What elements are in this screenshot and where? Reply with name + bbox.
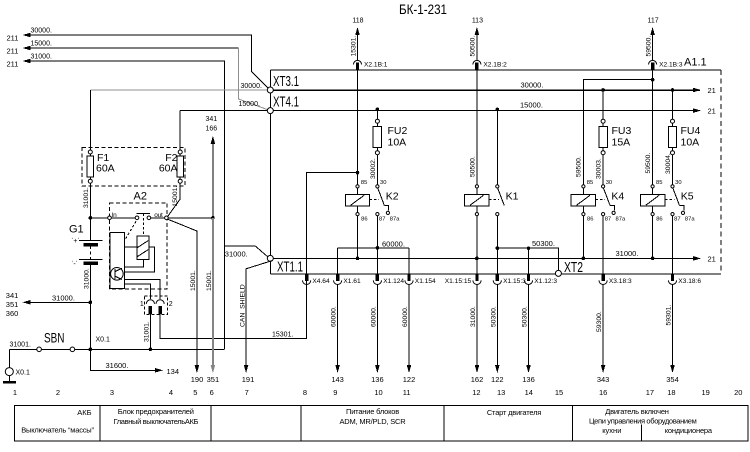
block A2 dashed outline: [110, 203, 168, 289]
wire driver to coil: [124, 246, 137, 248]
wire contact to out: [151, 217, 165, 219]
wire 59300 K4 87 to X3.18:3: [602, 216, 604, 275]
svg-text:Старт двигателя: Старт двигателя: [487, 408, 541, 417]
svg-text:30000.: 30000.: [31, 28, 52, 35]
arrow 21 (31000 bus): [693, 256, 701, 261]
relay K2 coil pin bottom circle: [356, 213, 359, 216]
svg-text:17: 17: [646, 388, 654, 397]
svg-text:кондиционера: кондиционера: [665, 426, 713, 435]
fuse FU2: [375, 119, 379, 123]
svg-text:211: 211: [7, 34, 19, 43]
svg-text:60000.: 60000.: [370, 306, 377, 327]
svg-text:G1: G1: [69, 224, 84, 236]
svg-text:out: out: [154, 212, 163, 219]
svg-text:3: 3: [110, 388, 114, 397]
svg-text:211: 211: [7, 60, 19, 69]
wire 60000 K2 87 down: [376, 216, 378, 248]
A2 internal wire coil-right loop: [124, 247, 154, 272]
wire net 15000 segment to F2: [180, 110, 270, 112]
svg-text:X1.15:15: X1.15:15: [445, 278, 472, 285]
svg-text:50300.: 50300.: [532, 239, 555, 248]
relay K1 contact pin bottom circle: [496, 213, 499, 216]
svg-text:X2.1B:3: X2.1B:3: [659, 62, 683, 69]
svg-text:60000.: 60000.: [382, 239, 405, 248]
svg-text:341: 341: [6, 291, 19, 300]
svg-text:БК-1-231: БК-1-231: [399, 1, 447, 17]
wire 31600 to pin 134: [90, 349, 156, 370]
junction 50300 branch X1.12:3: [527, 246, 531, 250]
svg-text:15000.: 15000.: [31, 41, 52, 48]
wire 15000 to K1 contact: [496, 109, 498, 184]
connector pin X1.124: [376, 274, 379, 281]
A2 driver box: [110, 232, 124, 288]
svg-text:59300.: 59300.: [596, 311, 603, 332]
block A1.1 top border line: [270, 69, 721, 71]
battery G1 cell1 thick plate: [84, 243, 98, 246]
svg-text:5: 5: [193, 388, 197, 397]
svg-text:Главный выключательАКБ: Главный выключательАКБ: [113, 417, 198, 426]
svg-text:60A: 60A: [159, 163, 178, 175]
svg-text:87a: 87a: [616, 217, 626, 223]
svg-text:87a: 87a: [685, 217, 695, 223]
svg-text:X4.64: X4.64: [312, 278, 330, 285]
wire battery top: [89, 218, 91, 240]
wire 31000 to sheet refs 341/351/360: [28, 301, 90, 303]
svg-text:87: 87: [674, 217, 680, 223]
svg-text:K4: K4: [611, 191, 624, 203]
wire 30000 to FU3: [602, 90, 604, 119]
junction out node: [211, 216, 215, 220]
relay K1 contact lever: [498, 188, 505, 205]
relay K4 contact pin top circle: [602, 185, 605, 188]
junction 15000/FU2: [376, 108, 380, 112]
wire 31000 down to pin 162: [476, 284, 478, 366]
relay K4 coil pin top circle: [582, 185, 585, 188]
svg-text:6: 6: [210, 388, 214, 397]
connector pin X3.18:3: [601, 274, 604, 281]
wire net 15000 to sheet 211 (grey drop): [28, 47, 239, 49]
junction 15301 branch: [356, 171, 360, 175]
ground symbol: [8, 376, 10, 382]
wire K1 coil 86 to 31000 bus: [476, 216, 478, 259]
wire 31000 branch to XT1.1 node: [224, 246, 268, 257]
relay K4 pin 87a circle: [612, 211, 615, 214]
svg-text:21: 21: [708, 254, 716, 263]
svg-text:FU2: FU2: [388, 125, 408, 137]
connector pin X1.12:3: [527, 274, 530, 281]
svg-text:30: 30: [606, 180, 612, 186]
relay K2 contact pin bottom circle: [376, 213, 379, 216]
wire junction to K2 coil: [357, 173, 359, 185]
svg-text:136: 136: [522, 375, 535, 384]
svg-text:60000.: 60000.: [331, 306, 338, 327]
svg-text:X2.1B:1: X2.1B:1: [364, 62, 388, 69]
wire K5 coil 86 to 31000 bus: [652, 216, 654, 259]
relay K4 coil pin bottom circle: [582, 213, 585, 216]
node XT4.1 terminal circle: [267, 108, 273, 114]
wire 50300 K1 87 down: [496, 216, 498, 249]
wire 15301 branch to X4.64 riser: [307, 173, 358, 275]
svg-text:X3.18:3: X3.18:3: [609, 278, 632, 285]
wire 50500 X2.1B:2 down to K1 coil: [476, 70, 478, 185]
A2 coil box: [137, 236, 149, 259]
svg-text:X1.154: X1.154: [415, 278, 436, 285]
wire 59500 up from connector X2.1B:3: [652, 29, 654, 61]
svg-text:Блок предохранителей: Блок предохранителей: [118, 407, 194, 416]
svg-text:АКБ: АКБ: [77, 408, 91, 417]
svg-text:351: 351: [207, 375, 220, 384]
svg-text:FU3: FU3: [612, 125, 632, 137]
svg-text:162: 162: [471, 375, 484, 384]
relay K2 contact pin top circle: [376, 185, 379, 188]
relay K4 coil: [582, 188, 584, 195]
svg-text:Цепи управления оборудованием: Цепи управления оборудованием: [589, 416, 697, 425]
wire 15000 to FU2: [376, 109, 378, 119]
relay K1 dashed link: [489, 199, 499, 201]
relay K2 coil pin top circle: [356, 185, 359, 188]
svg-text:Выключатель “массы”: Выключатель “массы”: [21, 425, 94, 434]
svg-text:191: 191: [242, 375, 255, 384]
wire net 30000 to sheet 211 (top-left): [28, 35, 268, 88]
svg-text:ADM, MR/PLD, SCR: ADM, MR/PLD, SCR: [340, 417, 407, 426]
arrow up to pin 117: [650, 27, 655, 35]
wire 31001 F1 to battery junction: [89, 183, 91, 218]
battery inter-cell dashed link: [89, 246, 91, 259]
node XT3.1 terminal circle: [267, 87, 273, 93]
svg-text:кухни: кухни: [602, 426, 621, 435]
connector pin X1.61: [336, 274, 339, 281]
wire K2 coil 86 to 31000 bus: [357, 216, 359, 259]
junction 30000/FU4: [671, 88, 675, 92]
wire 15001 out diagonal to pin 190: [168, 219, 197, 366]
svg-text:31000.: 31000.: [225, 249, 248, 258]
junction 50300 (K1): [496, 246, 500, 250]
fuse FU4: [671, 119, 675, 123]
svg-text:In: In: [112, 212, 118, 219]
svg-text:134: 134: [167, 367, 180, 376]
svg-text:20: 20: [734, 388, 742, 397]
wire 15301 X2.1B:1 down to junction: [357, 70, 359, 173]
svg-text:A1.1: A1.1: [684, 57, 707, 69]
svg-text:59301.: 59301.: [666, 305, 673, 326]
svg-text:XT1.1: XT1.1: [277, 259, 303, 276]
svg-text:15000.: 15000.: [239, 101, 260, 108]
arrow 30000 left: [23, 33, 31, 38]
relay K1 contact pin top circle: [496, 185, 499, 188]
wire 60000 down to pin 136: [376, 284, 378, 366]
svg-text:351: 351: [6, 300, 19, 309]
svg-text:87: 87: [379, 217, 385, 223]
arrow down pin 190: [195, 365, 200, 373]
svg-text:86: 86: [587, 217, 593, 223]
terminal bar left edge vertical: [269, 70, 271, 274]
relay K5 dashed link: [665, 199, 675, 201]
fuse box dashed outline: [82, 147, 185, 186]
svg-text:SBN: SBN: [44, 330, 65, 346]
wire 59500 X2.1B:3 down: [652, 70, 654, 185]
wire 50300 to X1.12:3: [528, 248, 530, 274]
arrow up to pin 113: [475, 27, 480, 35]
relay K4 contact lever: [604, 188, 611, 205]
svg-text:31600.: 31600.: [106, 361, 129, 370]
wire 59500 branch to K4 coil: [583, 80, 652, 185]
svg-text:30000.: 30000.: [521, 81, 544, 90]
svg-text:30004.: 30004.: [665, 153, 672, 174]
svg-text:K5: K5: [681, 191, 694, 203]
connector pin X1.15:15: [475, 274, 478, 281]
function table frame: [15, 405, 748, 441]
svg-text:86: 86: [656, 217, 662, 223]
svg-text:31000.: 31000.: [52, 293, 75, 302]
connector X2.1B:1: [353, 60, 361, 64]
table sub-divider: [641, 425, 643, 441]
svg-text:2: 2: [56, 388, 60, 397]
svg-text:8: 8: [303, 388, 307, 397]
wire 60000 to X1.124: [376, 248, 378, 274]
wire 15301 A2 pin2 to X4.64: [160, 274, 307, 338]
wire 15001 F2 to A2 out: [168, 183, 181, 216]
svg-text:85: 85: [656, 180, 662, 186]
svg-text:XT3.1: XT3.1: [273, 73, 299, 90]
svg-text:15001.: 15001.: [172, 186, 179, 207]
contact circles (A2 switch): [135, 216, 139, 220]
terminal In circle: [108, 216, 112, 220]
block A1.1 dashed right border: [720, 70, 722, 274]
svg-text:50500.: 50500.: [470, 36, 477, 57]
svg-text:21: 21: [708, 107, 716, 116]
svg-text:50300.: 50300.: [522, 306, 529, 327]
wire 50500 up from connector X2.1B:2: [476, 29, 478, 61]
svg-text:ˈ-ˈ: ˈ-ˈ: [71, 260, 78, 268]
svg-text:118: 118: [352, 18, 363, 25]
A2 internal wire to pin 1: [124, 284, 150, 299]
junction battery/31000 arrow: [89, 301, 93, 305]
connector pin X1.154: [407, 274, 410, 281]
svg-text:87: 87: [605, 217, 611, 223]
node XT2 terminal circle: [555, 270, 561, 276]
svg-text:X1.124: X1.124: [383, 278, 404, 285]
svg-text:31000.: 31000.: [470, 306, 477, 327]
wire net 30000 grey segment to F1: [90, 89, 270, 91]
terminal out circle: [165, 216, 169, 220]
svg-text:59500.: 59500.: [645, 153, 652, 174]
svg-text:30000.: 30000.: [241, 83, 262, 90]
arrow 15000 left: [23, 46, 31, 51]
wire CAN_SHIELD from XT1.1 node to pin 191: [246, 261, 272, 367]
svg-text:117: 117: [648, 18, 659, 25]
svg-text:Питание блоков: Питание блоков: [346, 407, 399, 416]
junction battery minus / SBN rail: [89, 348, 93, 352]
svg-text:50500.: 50500.: [469, 156, 476, 177]
svg-text:31000.: 31000.: [616, 249, 639, 258]
wire X0.1 ground rail: [9, 348, 224, 350]
relay K4 contact pin bottom circle: [602, 213, 605, 216]
svg-text:11: 11: [403, 388, 411, 397]
wire 50300 to X1.15:3: [496, 248, 498, 274]
junction 15000/K1 contact: [496, 108, 500, 112]
svg-text:XT2: XT2: [564, 259, 583, 276]
svg-text:122: 122: [403, 375, 416, 384]
relay K2 dashed link: [370, 199, 380, 201]
relay K4 dashed link: [596, 199, 605, 201]
svg-text:K2: K2: [386, 191, 399, 203]
svg-text:Двигатель включен: Двигатель включен: [605, 407, 669, 416]
fuse F2: [178, 150, 182, 154]
svg-text:X3.18:6: X3.18:6: [678, 278, 701, 285]
wire 31001 A2 pin1 to ground rail: [149, 314, 151, 349]
svg-text:15301.: 15301.: [272, 331, 293, 338]
connector pin X1.15:3: [496, 274, 499, 281]
relay K5 coil pin bottom circle: [651, 213, 654, 216]
svg-text:30: 30: [380, 180, 386, 186]
wire 50300 down to pin 122: [496, 284, 498, 366]
svg-text:85: 85: [587, 180, 593, 186]
wire battery bottom: [89, 265, 91, 350]
wire 15301 up from connector X2.1B:1: [357, 29, 359, 61]
junction 59500 branch: [651, 78, 655, 82]
svg-text:1: 1: [13, 388, 17, 397]
wire net 60000 distribution: [338, 247, 409, 249]
A2 actuator T-bar: [137, 213, 150, 215]
connector X2.1B:2: [473, 60, 481, 64]
wire net 31000 to sheet 211 / drop to XT1.1 and ground rail: [28, 61, 224, 349]
svg-text:2: 2: [169, 301, 173, 308]
svg-text:31000.: 31000.: [83, 268, 90, 289]
wire net 30000 bus line (XT3.1): [270, 89, 700, 91]
battery G1 cell2 long plate: [79, 258, 102, 260]
svg-text:9: 9: [333, 388, 337, 397]
svg-text:X1.12:3: X1.12:3: [534, 278, 557, 285]
A2 internal wire coil-bottom to driver: [124, 259, 143, 267]
wire 60000 down to pin 122: [408, 284, 410, 366]
svg-text:86: 86: [361, 217, 367, 223]
relay K5 pin 87a circle: [681, 211, 684, 214]
fuse F1: [88, 150, 92, 154]
wire net 50300 to XT2: [497, 248, 558, 270]
relay K5 contact lever: [673, 188, 680, 205]
relay K5 contact pin bottom circle: [671, 213, 674, 216]
svg-text:113: 113: [472, 18, 483, 25]
strip bottom line: [270, 273, 721, 275]
svg-text:31001.: 31001.: [83, 187, 90, 208]
wire out to junction: [168, 217, 213, 219]
svg-text:18: 18: [667, 388, 675, 397]
svg-text:1: 1: [140, 301, 144, 308]
svg-text:30: 30: [675, 180, 681, 186]
wire 30000 down to F1: [89, 90, 91, 150]
wire 30002 FU2 to K2 pin30: [376, 155, 378, 185]
arrow down pin 191: [244, 365, 249, 373]
svg-text:31001.: 31001.: [10, 341, 31, 348]
svg-text:21: 21: [708, 86, 716, 95]
svg-text:190: 190: [191, 375, 204, 384]
relay K1 coil pin top circle: [475, 185, 478, 188]
A2 dashed lever link: [125, 221, 136, 239]
svg-text:10: 10: [374, 388, 382, 397]
A2 coil hatch: [138, 241, 149, 248]
svg-text:X2.1B:2: X2.1B:2: [483, 62, 507, 69]
connector X2.1B:3: [648, 60, 656, 64]
svg-text:15001.: 15001.: [206, 270, 213, 291]
wire K1 86 through to X1.15:15: [476, 258, 478, 274]
junction 60000: [376, 246, 380, 250]
svg-text:FU4: FU4: [681, 125, 701, 137]
switch SBN contact circles: [37, 347, 42, 352]
wire In feed: [90, 217, 135, 219]
relay K5 coil: [652, 188, 654, 195]
svg-text:85: 85: [361, 180, 367, 186]
svg-text:X0.1: X0.1: [96, 336, 111, 343]
connector pin X4.64: [305, 274, 308, 281]
wire net 15000 bus line (XT4.1): [270, 110, 700, 112]
svg-text:X0.1: X0.1: [16, 370, 31, 377]
connector pin X3.18:6: [671, 274, 674, 281]
wire K4 coil 86 to 31000 bus: [582, 216, 584, 259]
svg-text:15: 15: [555, 388, 563, 397]
arrow 31000 left: [23, 59, 31, 64]
svg-text:CAN_SHIELD: CAN_SHIELD: [239, 284, 246, 327]
A2 internal wire to pin 2: [124, 279, 160, 299]
relay K1 coil: [476, 188, 478, 195]
A2 pin connector dashed box: [145, 296, 168, 315]
svg-text:X1.61: X1.61: [343, 278, 361, 285]
wire to pins 341/166 (up arrow): [212, 138, 214, 218]
wire 60000 down to pin 143: [337, 284, 339, 366]
relay K2 coil: [357, 188, 359, 195]
svg-text:15001.: 15001.: [190, 270, 197, 291]
svg-text:60000.: 60000.: [402, 306, 409, 327]
svg-text:354: 354: [666, 375, 679, 384]
arrow up to pin 118: [355, 27, 360, 35]
relay K2 contact lever: [378, 188, 385, 205]
svg-text:XT4.1: XT4.1: [273, 94, 299, 111]
svg-text:10A: 10A: [681, 137, 700, 149]
svg-text:122: 122: [491, 375, 504, 384]
wire 50300 down to pin 136: [528, 284, 530, 366]
svg-text:15000.: 15000.: [520, 101, 543, 110]
fuse FU3: [601, 119, 605, 123]
wire 30004 FU4 to K5 pin30: [672, 155, 674, 185]
relay K1 coil pin bottom circle: [475, 213, 478, 216]
transistor Q (A2): [111, 268, 124, 281]
relay K2 pin 87a circle: [386, 211, 389, 214]
pin 1 connector (A2): [146, 300, 154, 304]
svg-text:16: 16: [599, 388, 607, 397]
svg-text:50300.: 50300.: [490, 306, 497, 327]
relay K5 contact pin top circle: [671, 185, 674, 188]
svg-text:211: 211: [7, 47, 19, 56]
wire 59300 down to pin 343: [602, 284, 604, 366]
svg-text:87a: 87a: [390, 217, 400, 223]
arrow 21 (30000): [660, 89, 700, 91]
svg-text:31001.: 31001.: [144, 321, 151, 342]
wire 59301 down to pin 354: [672, 284, 674, 366]
svg-text:31000.: 31000.: [31, 54, 52, 61]
svg-text:X1.15:3: X1.15:3: [503, 278, 526, 285]
svg-text:15301.: 15301.: [350, 36, 357, 57]
terminal X0.1 circle: [5, 368, 13, 376]
wire 30000 to FU4: [672, 90, 674, 119]
svg-text:166: 166: [205, 126, 217, 133]
svg-text:A2: A2: [134, 191, 147, 203]
svg-text:360: 360: [6, 309, 19, 318]
svg-text:30003.: 30003.: [596, 158, 603, 179]
svg-text:13: 13: [497, 388, 505, 397]
wire 15000 down to F2: [179, 111, 181, 150]
wire down to chassis terminal: [8, 349, 10, 367]
battery G1 cell1 long plate: [79, 240, 102, 242]
svg-text:30002.: 30002.: [370, 158, 377, 179]
